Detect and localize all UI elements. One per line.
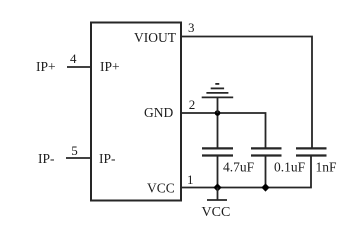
junction node VCC/C1 (diamond) — [213, 183, 221, 191]
capacitor C2 0.1uF — [251, 148, 282, 155]
svg-text:VIOUT: VIOUT — [134, 30, 177, 45]
wire pin 5 IP- — [66, 157, 91, 159]
svg-text:VCC: VCC — [202, 205, 231, 220]
svg-text:GND: GND — [144, 105, 173, 120]
svg-text:IP-: IP- — [99, 151, 116, 166]
power symbol VCC — [207, 188, 227, 201]
wire stem C1 bottom to VCC rail — [217, 156, 219, 188]
junction node GND/C1 — [215, 110, 221, 116]
IC U1 body — [91, 23, 181, 201]
wire GND net: pin2 right then down to C2 top — [181, 113, 266, 148]
wire VIOUT net: pin3 right then down to C3 top — [181, 37, 312, 148]
svg-text:3: 3 — [188, 20, 195, 35]
svg-text:4: 4 — [70, 51, 77, 66]
capacitor C1 4.7uF — [202, 148, 233, 155]
wire stem C2 bottom to VCC rail — [265, 156, 267, 188]
svg-text:2: 2 — [189, 97, 196, 112]
svg-text:4.7uF: 4.7uF — [223, 160, 255, 175]
wire stem from GND junction down to C1 top — [217, 113, 219, 148]
junction node VCC/C2 (diamond) — [261, 183, 269, 191]
capacitor C3 1nF — [296, 148, 327, 155]
wire pin 4 IP+ — [67, 66, 91, 68]
svg-text:IP+: IP+ — [36, 59, 56, 74]
svg-text:VCC: VCC — [147, 181, 175, 196]
svg-text:5: 5 — [71, 143, 78, 158]
svg-text:1: 1 — [187, 172, 194, 187]
svg-text:IP+: IP+ — [100, 59, 120, 74]
svg-text:0.1uF: 0.1uF — [274, 160, 306, 175]
svg-text:IP-: IP- — [38, 151, 55, 166]
ground symbol (earth, pointing up) — [202, 84, 234, 113]
svg-text:1nF: 1nF — [316, 160, 338, 175]
wire VCC net: pin1 right then up to C3 bottom — [181, 156, 311, 188]
